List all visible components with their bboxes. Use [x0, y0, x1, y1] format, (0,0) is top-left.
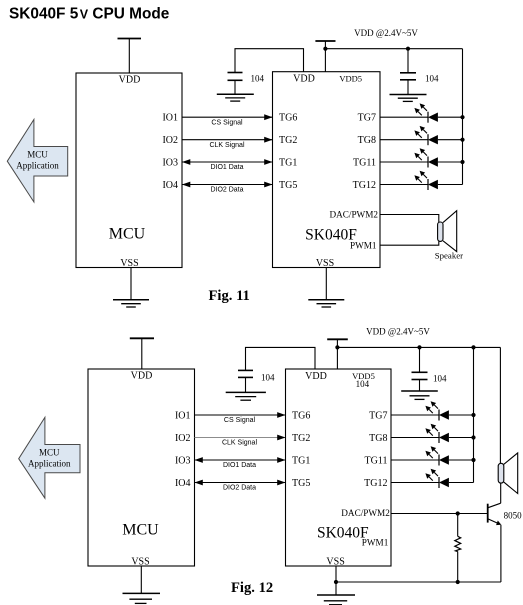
LED D8 at TG12 (Fig 12) [391, 469, 474, 488]
svg-text:VDD: VDD [293, 74, 315, 85]
wire speaker to transistor collector (Fig 12) [500, 483, 502, 503]
svg-text:VDD: VDD [305, 371, 327, 382]
transistor Q1 8050 (Fig 12) [488, 503, 522, 525]
speaker LS1 (Fig 11) [435, 211, 463, 261]
node: VDD rail junction dot at power symbol (Fig 11) [323, 47, 327, 51]
wire DIO1 Data IO3-TG1 (Fig 11) [182, 159, 273, 171]
resistor R1 (Fig 12) [455, 514, 461, 583]
VDD power symbol above MCU (Fig 12) [130, 338, 154, 369]
svg-text:DAC/PWM2: DAC/PWM2 [330, 210, 379, 220]
svg-text:Fig. 11: Fig. 11 [209, 288, 250, 304]
svg-text:VDD: VDD [119, 75, 141, 86]
SK040F U4 box (Fig 12) [286, 369, 392, 567]
node: bus dot TG11 row (Fig 11) [460, 160, 464, 164]
svg-text:DIO1 Data: DIO1 Data [223, 462, 256, 469]
svg-text:CS Signal: CS Signal [224, 417, 256, 424]
svg-text:DIO2 Data: DIO2 Data [223, 485, 256, 492]
wire right vertical bus (Fig 11) [462, 49, 464, 185]
svg-text:TG1: TG1 [279, 158, 297, 169]
node: junction dot at capacitor C4 (Fig 12) [417, 345, 421, 349]
capacitor C1 104 left of SK040F (Fig 11) [228, 49, 304, 94]
svg-text:PWM1: PWM1 [362, 537, 389, 547]
svg-text:IO1: IO1 [162, 113, 178, 124]
svg-text:Application: Application [28, 459, 71, 469]
wire DIO1 Data IO3-TG1 (Fig 12) [195, 457, 286, 469]
svg-text:IO2: IO2 [175, 433, 191, 444]
MCU Application arrow (Fig 12) [19, 417, 80, 498]
svg-text:IO3: IO3 [175, 456, 191, 467]
svg-text:IO4: IO4 [162, 180, 178, 191]
svg-text:MCU: MCU [39, 448, 60, 458]
title: SK040F 5V CPU Mode [9, 5, 170, 22]
wire DIO2 Data IO4-TG5 (Fig 12) [195, 480, 286, 492]
node: bus dot TG8 row (Fig 11) [460, 138, 464, 142]
svg-text:TG5: TG5 [292, 478, 310, 489]
VDD power symbol above SK040F (Fig 12) [327, 339, 348, 369]
svg-text:Fig. 12: Fig. 12 [231, 580, 273, 596]
MCU Application arrow (Fig 11) [7, 120, 67, 203]
svg-text:IO1: IO1 [175, 411, 191, 422]
svg-text:CLK Signal: CLK Signal [222, 440, 257, 447]
svg-text:DIO2 Data: DIO2 Data [210, 187, 243, 194]
wire DAC/PWM2 to transistor base (Fig 12) [391, 513, 488, 515]
wire transistor emitter down (Fig 12) [500, 525, 502, 582]
speaker LS2 (Fig 12) [498, 453, 518, 494]
LED D2 at TG8 (Fig 11) [380, 126, 463, 145]
node: bus dot TG11 row (Fig 12) [471, 458, 475, 462]
svg-text:MCU: MCU [122, 522, 159, 539]
svg-text:TG2: TG2 [292, 433, 310, 444]
LED D1 at TG7 (Fig 11) [380, 103, 463, 122]
node: junction dot base/resistor (Fig 12) [456, 511, 460, 515]
svg-text:104: 104 [433, 374, 447, 384]
svg-text:IO2: IO2 [162, 135, 178, 146]
svg-text:DAC/PWM2: DAC/PWM2 [341, 508, 390, 518]
wire CS Signal IO1-TG6 (Fig 12) [195, 412, 286, 424]
ground below SK040F VSS (Fig 11) [308, 268, 344, 308]
svg-text:Application: Application [16, 161, 59, 171]
svg-text:TG2: TG2 [279, 135, 297, 146]
MCU U1 box (Fig 11) [76, 73, 182, 269]
svg-text:TG5: TG5 [279, 180, 297, 191]
svg-text:TG7: TG7 [358, 113, 376, 124]
ground below capacitor C4 (Fig 12) [401, 391, 438, 399]
LED D4 at TG12 (Fig 11) [380, 171, 463, 190]
node: bus dot TG7 row (Fig 11) [460, 115, 464, 119]
svg-text:TG6: TG6 [279, 113, 297, 124]
capacitor C2 104 right of SK040F (Fig 11) [400, 49, 439, 95]
node: VDD rail junction dot at power symbol (Fig 12) [335, 345, 339, 349]
svg-text:VSS: VSS [316, 258, 334, 269]
svg-text:TG11: TG11 [365, 456, 388, 467]
node: bus dot TG7 row (Fig 12) [471, 413, 475, 417]
wire VDD rail to right bus (Fig 11) [325, 48, 462, 50]
svg-text:TG6: TG6 [292, 411, 310, 422]
wire VDD rail (Fig 12) [337, 346, 500, 348]
svg-text:CLK Signal: CLK Signal [209, 142, 244, 149]
ground below capacitor C2 (Fig 11) [390, 95, 427, 102]
svg-text:104: 104 [261, 373, 275, 383]
svg-text:104: 104 [251, 74, 265, 84]
svg-text:VDD @2.4V~5V: VDD @2.4V~5V [354, 28, 418, 38]
svg-text:VSS: VSS [131, 556, 149, 567]
svg-text:MCU: MCU [27, 150, 48, 160]
ground below capacitor C1 (Fig 11) [217, 94, 254, 101]
node: junction dot at capacitor C2 (Fig 11) [406, 47, 410, 51]
svg-text:104: 104 [356, 379, 370, 389]
svg-text:VSS: VSS [120, 258, 138, 269]
capacitor C4 104 right of SK040F (Fig 12) [412, 347, 448, 391]
MCU U3 box (Fig 12) [88, 369, 195, 567]
svg-text:TG8: TG8 [358, 135, 376, 146]
ground below MCU VSS (Fig 11) [113, 268, 149, 308]
ground below MCU VSS (Fig 12) [123, 566, 161, 603]
wire DAC/PWM2 to speaker (Fig 11) [380, 215, 439, 223]
svg-text:DIO1 Data: DIO1 Data [210, 164, 243, 171]
svg-text:8050: 8050 [504, 511, 522, 521]
svg-text:VSS: VSS [326, 556, 344, 567]
svg-text:TG8: TG8 [369, 433, 387, 444]
wire PWM1 to speaker (Fig 11) [380, 241, 439, 245]
ground below capacitor C3 (Fig 12) [226, 392, 266, 400]
node: junction dot resistor at rail (Fig 12) [456, 580, 460, 584]
VDD power symbol above MCU (Fig 11) [118, 39, 142, 74]
svg-text:TG12: TG12 [353, 180, 376, 191]
svg-text:SK040F 5V CPU Mode: SK040F 5V CPU Mode [9, 5, 170, 22]
wire CLK Signal IO2-TG2 gray (Fig 12) [195, 435, 286, 447]
svg-text:TG7: TG7 [369, 411, 387, 422]
wire CLK Signal IO2-TG2 (Fig 11) [182, 137, 273, 149]
wire LED vertical bus (Fig 12) [473, 347, 475, 482]
wire DIO2 Data IO4-TG5 (Fig 11) [182, 182, 273, 194]
node: bus dot TG8 row (Fig 12) [471, 435, 475, 439]
svg-text:Speaker: Speaker [435, 250, 463, 260]
LED D6 at TG8 (Fig 12) [391, 424, 474, 443]
SK040F U2 box (Fig 11) [273, 72, 381, 269]
svg-text:TG1: TG1 [292, 456, 310, 467]
svg-text:CS Signal: CS Signal [211, 119, 243, 126]
node: junction dot LED bus at rail (Fig 12) [471, 345, 475, 349]
svg-text:VDD @2.4V~5V: VDD @2.4V~5V [366, 327, 430, 337]
svg-text:TG12: TG12 [364, 478, 387, 489]
svg-text:VDD: VDD [131, 371, 153, 382]
capacitor C3 104 left of SK040F (Fig 12) [238, 347, 315, 392]
svg-text:MCU: MCU [109, 226, 146, 243]
svg-text:104: 104 [425, 74, 439, 84]
ground below SK040F VSS (Fig 12) [317, 566, 355, 605]
wire CS Signal IO1-TG6 (Fig 11) [182, 114, 273, 126]
wire bottom rail VSS (Fig 12) [336, 581, 501, 583]
svg-text:IO3: IO3 [162, 158, 178, 169]
node: junction dot VSS rail (Fig 12) [334, 580, 338, 584]
svg-text:TG11: TG11 [353, 158, 376, 169]
svg-text:IO4: IO4 [175, 478, 191, 489]
LED D5 at TG7 (Fig 12) [391, 401, 474, 420]
svg-text:PWM1: PWM1 [350, 240, 377, 250]
VDD power symbol above SK040F (Fig 11) [315, 41, 335, 72]
wire VDD rail down to speaker (Fig 12) [499, 347, 501, 463]
LED D7 at TG11 (Fig 12) [391, 446, 474, 465]
svg-text:VDD5: VDD5 [339, 74, 362, 84]
LED D3 at TG11 (Fig 11) [380, 148, 463, 167]
